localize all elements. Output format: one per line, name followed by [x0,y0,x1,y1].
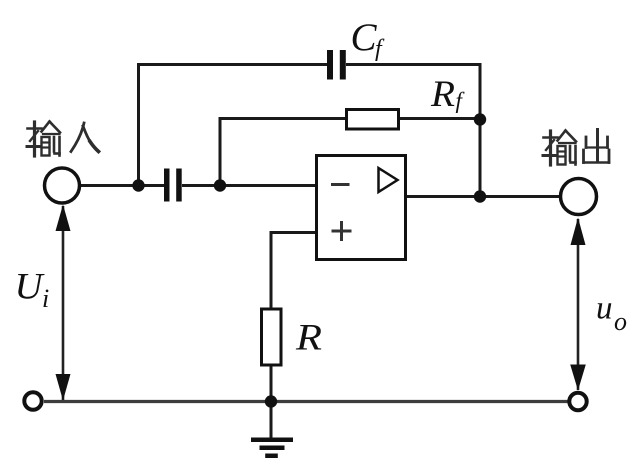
svg-text:o: o [614,307,627,336]
svg-text:C: C [351,16,378,59]
svg-text:u: u [596,291,613,327]
svg-text:R: R [295,318,322,359]
svg-text:i: i [42,284,49,313]
svg-text:R: R [430,74,455,115]
svg-text:U: U [15,267,45,308]
